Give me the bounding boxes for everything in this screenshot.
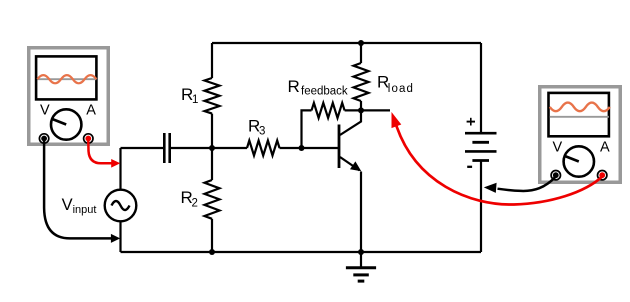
battery plate long: [465, 150, 497, 153]
transistor Q1 emitter: [340, 157, 360, 170]
source V1 circle: [105, 190, 137, 222]
node emitter bottom: [358, 249, 364, 255]
wire emitter down: [360, 172, 362, 253]
svg-text:feedback: feedback: [301, 86, 348, 98]
probe M2 red: [396, 124, 602, 205]
source sine symbol: [112, 201, 130, 210]
node B: [299, 145, 305, 151]
svg-text:load: load: [388, 83, 414, 95]
svg-text:A: A: [600, 139, 610, 155]
label battery minus: [467, 166, 472, 168]
wire top rail: [212, 42, 481, 44]
svg-text:2: 2: [192, 198, 198, 210]
transistor Q1 collector: [340, 110, 361, 135]
wire feedback stub: [302, 110, 312, 148]
label battery plus: [467, 121, 475, 123]
resistor R1: [205, 78, 220, 114]
meter M2 terminal A: [598, 171, 607, 180]
meter M1 terminal A: [84, 134, 93, 143]
meter M1 needle: [52, 119, 66, 125]
wire output stub: [361, 109, 390, 111]
capacitor C1: [163, 133, 166, 163]
svg-text:input: input: [73, 204, 97, 216]
svg-text:V: V: [553, 139, 563, 155]
meter M1 dial: [51, 109, 81, 139]
ground bar 3: [358, 280, 365, 283]
meter M1 screen: [36, 56, 96, 99]
wire source to bottom: [119, 221, 121, 252]
meter M2 screen: [549, 93, 609, 136]
svg-text:R: R: [288, 77, 300, 96]
svg-text:V: V: [62, 196, 73, 214]
svg-text:V: V: [40, 103, 50, 119]
wire input vertical: [119, 148, 121, 190]
meter M2 zero line: [550, 116, 609, 118]
probe M2 black: [498, 177, 556, 191]
ground bar 1: [346, 266, 376, 269]
wire battery top: [480, 43, 482, 132]
node R2 bottom: [209, 249, 215, 255]
meter M2 trace: [550, 103, 610, 112]
wire node to R3: [212, 147, 247, 149]
ground stub: [360, 252, 362, 268]
probe M1 red arrow: [111, 159, 120, 168]
svg-text:A: A: [86, 103, 96, 119]
wire R3 to node B: [280, 147, 302, 149]
transistor Q1 emitter arrow: [350, 161, 361, 171]
probe M2 red arrow: [392, 112, 402, 128]
meter M1 terminal V: [39, 134, 48, 143]
svg-text:1: 1: [192, 94, 198, 106]
meter M2 terminal V: [551, 171, 560, 180]
meter M1 zero line: [37, 78, 96, 80]
wire battery bottom: [480, 162, 482, 253]
transistor Q1 base bar: [338, 125, 341, 169]
wire node B to base: [302, 147, 339, 149]
svg-text:3: 3: [259, 126, 265, 138]
battery plate short bottom: [472, 159, 489, 162]
wire Rload leads: [360, 43, 362, 63]
meter M2 body: [540, 87, 621, 183]
meter M1 body: [29, 48, 109, 145]
node top: [358, 40, 364, 46]
resistor R2: [205, 180, 220, 219]
resistor Rload: [354, 63, 369, 101]
wire cap to node: [171, 147, 212, 149]
probe M1 red: [88, 141, 112, 163]
resistor Rfeedback: [312, 103, 345, 118]
meter M2 needle: [565, 156, 579, 162]
wire signal row left: [121, 147, 164, 149]
ground bar 2: [353, 273, 369, 276]
resistor R3: [247, 141, 280, 156]
wire bottom rail: [121, 251, 482, 253]
battery plate short: [472, 141, 489, 144]
probe M2 black arrow: [484, 183, 497, 193]
wire R2 leads: [211, 148, 213, 180]
wire feedback to collector node: [345, 109, 361, 111]
wire R1 branch leads: [211, 43, 213, 78]
meter M1 trace: [37, 75, 96, 83]
battery plate long top: [465, 132, 497, 135]
probe M1 black: [44, 141, 111, 238]
node base row left: [209, 145, 215, 151]
meter M2 dial: [564, 146, 594, 176]
probe M1 black arrow: [111, 234, 120, 243]
node collector: [358, 107, 364, 113]
